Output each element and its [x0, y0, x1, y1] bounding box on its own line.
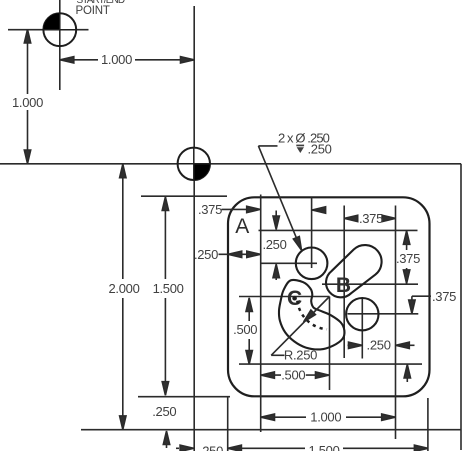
wire hole D vertical centerline [361, 299, 363, 359]
node arc start point dot [292, 296, 297, 301]
dimension .375 top (slot B centerline to right inner line) [344, 215, 395, 221]
svg-text:.500: .500 [281, 368, 305, 383]
dimension 1.500 bottom row (clipped) [228, 445, 428, 451]
callout 2 x Dia .250 leader [258, 146, 304, 252]
dimension .250 vertical mini (hole A offset) [273, 211, 279, 281]
svg-text:.250: .250 [367, 338, 391, 353]
slot B obround [326, 245, 382, 297]
wire hole A vertical centerline [311, 198, 313, 269]
wire extension line vertical x=260.7 [260, 195, 262, 433]
wire part right extension line below part [427, 398, 429, 451]
part outline rounded square [228, 197, 430, 396]
wire extension line vertical x=395.5 [395, 206, 397, 440]
hole D circle [346, 298, 378, 330]
svg-text:1.000: 1.000 [12, 95, 43, 110]
svg-text:POINT: POINT [76, 5, 110, 17]
svg-text:.250: .250 [152, 404, 176, 419]
dimension 1.500 vertical [162, 197, 168, 395]
pocket C kidney outline [279, 280, 345, 350]
wire slot B horizontal centerline [322, 283, 418, 285]
wire extension line horizontal y=230.4 [259, 229, 418, 231]
wire stock right edge line [460, 164, 462, 450]
svg-text:.375: .375 [359, 211, 383, 226]
svg-text:2.000: 2.000 [108, 281, 139, 296]
svg-text:.250: .250 [262, 237, 286, 252]
svg-text:1.500: 1.500 [308, 443, 339, 451]
svg-text:B: B [336, 274, 351, 297]
svg-text:1.500: 1.500 [153, 281, 184, 296]
svg-text:.250: .250 [308, 141, 332, 156]
tool path dashed arc R.250 [297, 301, 327, 330]
wire extension line horizontal y=364.1 [239, 363, 422, 365]
svg-text:.375: .375 [432, 289, 456, 304]
svg-text:A: A [235, 215, 249, 238]
svg-text:.250: .250 [199, 444, 223, 451]
dimension 1.000 vertical (datum1 to stock top) [24, 29, 30, 163]
svg-text:.375: .375 [396, 251, 420, 266]
svg-text:.500: .500 [233, 322, 257, 337]
wire hole A horizontal centerline [261, 262, 317, 264]
wire stock bottom edge line [81, 429, 461, 431]
wire pocket C horizontal centerline [239, 296, 330, 298]
dimension .375 right upper [403, 231, 409, 284]
wire datum 2 vertical centerline [193, 6, 195, 451]
wire datum 1 vertical centerline [59, 0, 61, 90]
svg-text:1.000: 1.000 [310, 410, 341, 425]
dimension R.250 leader [271, 297, 329, 356]
datum target symbol 1 (start/end point) [43, 13, 76, 46]
dimension 1.000 bottom (part) [261, 414, 395, 420]
svg-text:.375: .375 [198, 202, 222, 217]
dimension 1.000 horizontal (datum1 to datum2) [60, 57, 194, 63]
wire slot B vertical centerline [343, 206, 345, 359]
svg-text:1.000: 1.000 [101, 52, 132, 67]
wire part top extension line [141, 195, 227, 197]
dimension .250 bottom right (hole D to inner line) [348, 342, 415, 348]
dimension .375 right lower with bent leader [404, 296, 431, 382]
dimension .500 left vertical [246, 298, 252, 364]
hole A circle [296, 247, 328, 279]
svg-text:R.250: R.250 [284, 348, 317, 363]
dimension 2.000 vertical [120, 164, 126, 429]
dimension .250 bottom row (clipped) [176, 445, 194, 451]
datum target symbol 2 (program zero) [178, 148, 210, 180]
dimension .500 bottom horizontal [261, 372, 329, 378]
wire datum 1 horizontal centerline [8, 29, 89, 31]
wire stock top edge line [0, 163, 461, 165]
wire hole D horizontal centerline [348, 313, 419, 315]
svg-text:.250: .250 [194, 247, 218, 262]
wire pocket C vertical reference line [329, 297, 331, 391]
wire part bottom extension line [138, 396, 230, 398]
depth symbol [296, 145, 304, 153]
wire part left extension line below part [227, 397, 229, 451]
